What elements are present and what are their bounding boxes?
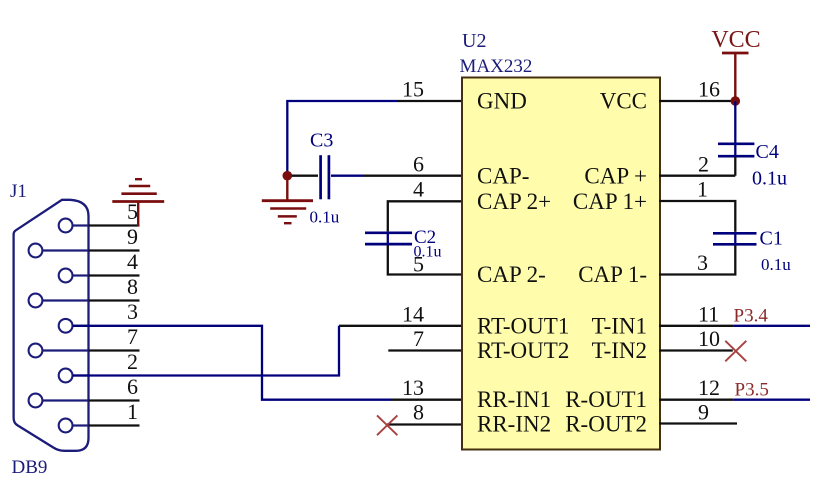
VCC power symbol bar xyxy=(722,52,749,55)
J1 pin 6 inner wire xyxy=(43,399,89,401)
svg-text:7: 7 xyxy=(413,326,424,351)
capacitor C2 plates xyxy=(365,233,412,244)
capacitor C4 plates xyxy=(718,144,754,156)
wire U2 pin8 stub xyxy=(387,423,462,425)
junction dot at C3/GND node xyxy=(283,171,293,181)
wire U2 pin13 stub xyxy=(391,399,462,401)
J1 pin 9 circle xyxy=(29,244,43,258)
svg-text:4: 4 xyxy=(127,249,138,274)
svg-text:12: 12 xyxy=(698,375,720,400)
svg-text:6: 6 xyxy=(127,374,138,399)
wire U2 pin1 / C1 top loop xyxy=(659,201,735,232)
wire U2 pin9 stub xyxy=(659,422,737,424)
svg-text:0.1u: 0.1u xyxy=(310,208,340,227)
capacitor C3 plates xyxy=(321,155,329,199)
wire U2 pin16 stub xyxy=(659,100,735,102)
svg-text:T-IN1: T-IN1 xyxy=(592,313,647,338)
wire C2 bottom loop to U2 pin5 xyxy=(388,246,462,275)
svg-text:1: 1 xyxy=(697,177,708,202)
wire U2 pin6 stub xyxy=(363,175,462,177)
svg-text:2: 2 xyxy=(698,152,709,177)
svg-text:MAX232: MAX232 xyxy=(460,56,533,77)
svg-text:0.1u: 0.1u xyxy=(761,255,791,274)
wire VCC node to C4 top plate xyxy=(734,101,736,143)
svg-text:R-OUT2: R-OUT2 xyxy=(565,412,647,437)
svg-text:4: 4 xyxy=(413,177,424,202)
J1 pin 6 stub xyxy=(89,399,140,401)
J1 pin 1 circle xyxy=(59,419,73,433)
svg-text:8: 8 xyxy=(127,274,138,299)
svg-text:CAP 2-: CAP 2- xyxy=(477,262,546,287)
svg-text:6: 6 xyxy=(413,152,424,177)
svg-text:R-OUT1: R-OUT1 xyxy=(565,387,647,412)
connector J1 body outline xyxy=(14,200,89,451)
J1 pin 9 inner wire xyxy=(43,249,89,251)
wire U2 pin14 stub xyxy=(339,325,462,327)
svg-text:P3.4: P3.4 xyxy=(734,306,769,327)
wire segment between C4 plates xyxy=(734,143,736,158)
earth ground on J1 pin 5 xyxy=(112,179,164,226)
svg-text:C1: C1 xyxy=(760,228,783,250)
svg-text:CAP-: CAP- xyxy=(477,164,529,189)
svg-text:13: 13 xyxy=(402,375,424,400)
svg-text:T-IN2: T-IN2 xyxy=(592,338,647,363)
ground symbol below C3 node xyxy=(262,179,313,223)
svg-text:8: 8 xyxy=(413,400,424,425)
J1 pin 8 stub xyxy=(89,299,140,301)
wire U2 pin15 stub xyxy=(398,100,462,102)
svg-text:9: 9 xyxy=(698,400,709,425)
svg-text:CAP 1-: CAP 1- xyxy=(578,262,647,287)
wire U2 pin10 stub xyxy=(659,349,733,351)
svg-text:11: 11 xyxy=(698,301,719,326)
svg-text:14: 14 xyxy=(402,301,424,326)
svg-text:RT-OUT1: RT-OUT1 xyxy=(477,313,569,338)
wire segment between C2 plates xyxy=(387,231,389,245)
J1 pin 9 stub xyxy=(89,249,140,251)
svg-text:CAP +: CAP + xyxy=(584,164,647,189)
J1 pin 2 circle xyxy=(59,369,73,383)
svg-text:VCC: VCC xyxy=(711,27,760,53)
wire GND net vertical to pin15 xyxy=(287,101,398,176)
svg-text:C3: C3 xyxy=(310,130,333,152)
J1 pin 4 circle xyxy=(59,269,73,283)
IC U2 MAX232 body xyxy=(462,78,660,450)
wire segment between C1 plates xyxy=(734,232,736,246)
svg-text:10: 10 xyxy=(698,326,720,351)
J1 pin 6 circle xyxy=(29,394,43,408)
J1 pin 8 circle xyxy=(29,294,43,308)
svg-text:RR-IN1: RR-IN1 xyxy=(477,387,551,412)
svg-text:CAP 1+: CAP 1+ xyxy=(573,189,647,214)
svg-text:15: 15 xyxy=(402,77,424,102)
J1 pin 5 circle xyxy=(59,219,73,233)
svg-text:GND: GND xyxy=(477,89,527,114)
wire net P3.5 xyxy=(734,399,810,401)
J1 pin 8 inner wire xyxy=(43,299,89,301)
svg-text:VCC: VCC xyxy=(600,89,647,114)
wire C1 bottom loop to U2 pin3 xyxy=(659,246,735,275)
J1 pin 2 inner wire xyxy=(73,374,89,376)
J1 pin 4 stub xyxy=(89,274,140,276)
VCC power symbol stem xyxy=(734,53,736,99)
no-connect X on U2 pin8 xyxy=(377,415,397,435)
svg-text:7: 7 xyxy=(127,324,138,349)
svg-text:RR-IN2: RR-IN2 xyxy=(477,412,551,437)
wire C4 bottom plate to pin2 xyxy=(734,157,736,176)
svg-text:J1: J1 xyxy=(10,181,27,202)
wire U2 pin11 stub xyxy=(659,325,734,327)
wire U2 pin7 stub xyxy=(388,349,462,351)
J1 pin 5 stub xyxy=(89,224,140,226)
svg-text:16: 16 xyxy=(698,77,720,102)
svg-text:CAP 2+: CAP 2+ xyxy=(477,189,551,214)
J1 pin 7 circle xyxy=(29,344,43,358)
wire J1 pin2 to U2 pin14 (net segment) xyxy=(73,326,339,376)
svg-text:P3.5: P3.5 xyxy=(735,380,769,401)
no-connect X on U2 pin10 xyxy=(725,341,746,362)
wire J1 pin3 to U2 pin13 (net segment) xyxy=(73,326,391,400)
svg-text:RT-OUT2: RT-OUT2 xyxy=(477,338,569,363)
wire U2 pin12 stub xyxy=(659,399,734,401)
svg-text:1: 1 xyxy=(127,399,138,424)
svg-text:U2: U2 xyxy=(462,30,486,52)
J1 pin 3 inner wire xyxy=(73,325,89,327)
J1 pin 1 inner wire xyxy=(73,424,89,426)
svg-text:3: 3 xyxy=(127,299,138,324)
wire C3 right plate to U2 pin6 xyxy=(331,175,363,177)
J1 pin 4 inner wire xyxy=(73,274,89,276)
capacitor C1 plates xyxy=(713,233,757,244)
J1 pin 7 inner wire xyxy=(43,349,89,351)
wire net P3.4 xyxy=(734,325,810,327)
J1 pin 3 circle xyxy=(59,319,73,333)
wire U2 pin4 / C2 top loop xyxy=(388,201,462,231)
svg-text:DB9: DB9 xyxy=(12,457,48,478)
junction dot at VCC node xyxy=(731,96,741,106)
svg-text:2: 2 xyxy=(127,349,138,374)
wire junction to C3 left plate xyxy=(287,175,318,177)
svg-text:9: 9 xyxy=(127,224,138,249)
svg-text:C4: C4 xyxy=(756,141,779,163)
wire U2 pin2 stub xyxy=(659,175,735,177)
J1 pin 1 stub xyxy=(89,424,140,426)
svg-text:3: 3 xyxy=(697,250,708,275)
svg-text:5: 5 xyxy=(413,252,424,277)
J1 pin 5 inner wire xyxy=(73,224,89,226)
svg-text:0.1u: 0.1u xyxy=(752,168,787,190)
J1 pin 7 stub xyxy=(89,349,140,351)
